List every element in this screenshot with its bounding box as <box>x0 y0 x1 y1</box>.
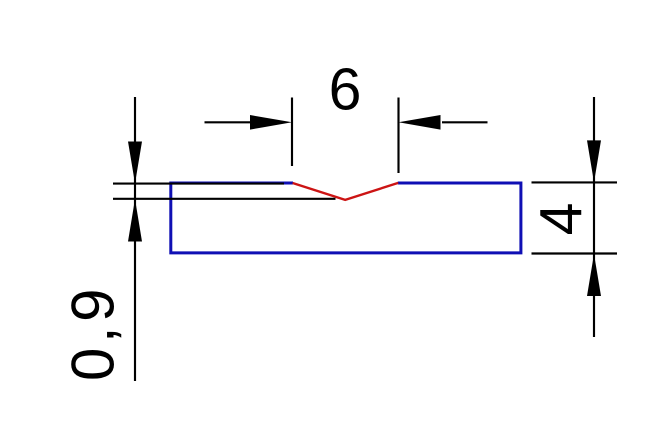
svg-text:4: 4 <box>529 203 595 236</box>
svg-text:0,9: 0,9 <box>60 284 127 381</box>
svg-text:6: 6 <box>329 57 362 123</box>
